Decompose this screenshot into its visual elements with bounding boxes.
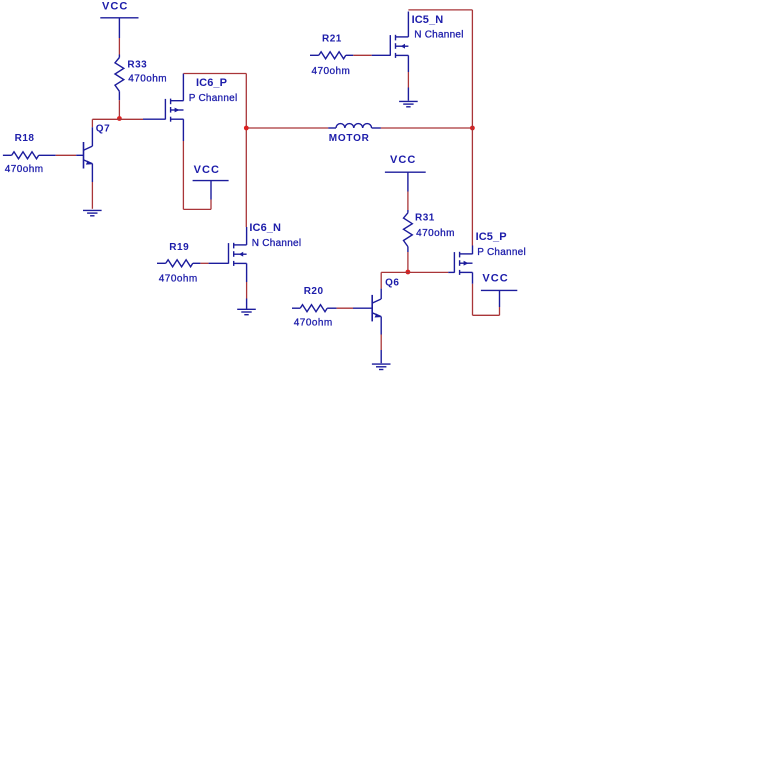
wire node A left to Q7 collector (92, 119, 119, 127)
label MOTOR (329, 133, 370, 144)
wire R19 to IC6_N gate (200, 262, 208, 264)
label R31 (415, 213, 435, 224)
pin Q6 base lead (353, 307, 372, 309)
label Q7 (96, 124, 110, 135)
svg-text:VCC: VCC (102, 1, 128, 13)
transistor Q6 (372, 289, 381, 335)
wire R33 to node A (118, 100, 120, 117)
svg-text:Q6: Q6 (385, 278, 399, 289)
value P Channel (IC6_P) (189, 93, 238, 104)
svg-text:R19: R19 (169, 242, 189, 253)
label IC5_N (412, 14, 444, 26)
node D junction dot (406, 270, 411, 275)
svg-text:470ohm: 470ohm (416, 228, 455, 239)
svg-text:IC6_P: IC6_P (196, 77, 227, 89)
power symbol VCC (top left) (100, 1, 138, 39)
svg-text:Q7: Q7 (96, 124, 110, 135)
svg-text:R31: R31 (415, 213, 435, 224)
wire Q7 emitter to ground (91, 182, 93, 209)
wire IC5_N source to ground (407, 72, 409, 88)
label Q6 (385, 278, 399, 289)
wire R20 to Q6 base (337, 307, 353, 309)
svg-text:R20: R20 (304, 286, 324, 297)
pin IC5_N gate lead (372, 54, 391, 56)
svg-text:VCC: VCC (482, 273, 508, 285)
ground (Q6 emitter) (372, 364, 391, 369)
node A junction dot (117, 116, 122, 121)
pin Q6 emitter lower lead (380, 350, 382, 363)
svg-text:IC6_N: IC6_N (249, 222, 281, 234)
mosfet IC6_N (229, 243, 247, 266)
wire node D right to IC5_P gate (408, 271, 448, 273)
pin IC5_N source lead (407, 55, 409, 72)
wire VCC to R33 (118, 38, 120, 55)
label R20 (304, 286, 324, 297)
wire motor right (381, 127, 471, 129)
power symbol VCC (right, IC5_P source) (481, 273, 517, 308)
pin IC6_N gate lead (209, 262, 229, 264)
svg-text:P Channel: P Channel (477, 247, 526, 258)
pin IC6_N source lead (246, 263, 248, 282)
wire IC5_P source to VCC (473, 284, 500, 316)
inductor MOTOR (328, 124, 381, 128)
label R21 (322, 33, 342, 44)
svg-text:MOTOR: MOTOR (329, 133, 370, 144)
mosfet IC6_P (165, 99, 183, 122)
resistor R19 (157, 260, 200, 267)
pin IC5_N drain lead (407, 12, 409, 37)
ground (Q7 emitter) (83, 210, 102, 215)
wire R21 to IC5_N gate (353, 54, 371, 56)
svg-text:N Channel: N Channel (252, 238, 302, 249)
mosfet IC5_P (454, 252, 472, 275)
wire IC6_P drain to motor branch (183, 74, 246, 228)
pin IC6_P gate lead (143, 118, 165, 120)
power symbol VCC (below IC6_P) (193, 164, 229, 199)
label R18 (15, 133, 35, 144)
value P Channel (IC5_P) (477, 247, 526, 258)
value 470ohm (R33) (128, 74, 167, 85)
wire motor left (248, 127, 328, 129)
svg-text:VCC: VCC (390, 154, 416, 166)
wire R31 to node D (407, 252, 409, 270)
label IC5_P (476, 231, 507, 243)
value 470ohm (R21) (312, 66, 351, 77)
svg-text:P Channel: P Channel (189, 93, 238, 104)
wire IC5_N drain to motor branch (408, 10, 472, 246)
resistor R33 (115, 55, 124, 101)
svg-text:IC5_N: IC5_N (412, 14, 444, 26)
pin IC6_P drain lead (182, 74, 184, 101)
svg-text:470ohm: 470ohm (159, 274, 198, 285)
wire VCC to R31 (407, 192, 409, 211)
value N Channel (IC6_N) (252, 238, 302, 249)
svg-text:N Channel: N Channel (414, 30, 464, 41)
transistor Q7 (84, 127, 93, 182)
resistor R18 (3, 152, 56, 159)
pin IC6_N drain lead (246, 227, 248, 245)
node C junction dot (right motor node) (470, 126, 475, 131)
mosfet IC5_N (390, 35, 408, 58)
pin IC5_N source lower lead (407, 88, 409, 101)
pin IC5_P drain lead (472, 246, 474, 255)
label R33 (127, 60, 147, 71)
resistor R31 (404, 210, 413, 252)
pin IC5_P gate lead (448, 271, 454, 273)
wire IC6_P source to VCC (183, 141, 211, 209)
value 470ohm (R19) (159, 274, 198, 285)
value 470ohm (R20) (294, 318, 333, 329)
svg-text:470ohm: 470ohm (128, 74, 167, 85)
value 470ohm (R18) (5, 164, 44, 175)
ground (IC5_N source) (399, 101, 418, 106)
svg-text:R18: R18 (15, 133, 35, 144)
node B junction dot (left motor node) (244, 126, 249, 131)
pin Q7 base lead (76, 154, 83, 156)
resistor R20 (292, 305, 337, 312)
power symbol VCC (above R31) (385, 154, 426, 192)
pin IC6_N source lower lead (246, 299, 248, 309)
ground (IC6_N source) (237, 309, 256, 314)
wire node D left to Q6 collector (381, 272, 408, 288)
svg-text:R33: R33 (127, 60, 147, 71)
svg-text:R21: R21 (322, 33, 342, 44)
svg-text:VCC: VCC (194, 164, 220, 176)
svg-text:470ohm: 470ohm (312, 66, 351, 77)
wire IC6_N source to ground (246, 282, 248, 299)
label IC6_N (249, 222, 281, 234)
wire Q6 emitter to ground (380, 335, 382, 351)
wire R18 to Q7 base (56, 154, 76, 156)
pin IC5_P source lead (472, 272, 474, 283)
value 470ohm (R31) (416, 228, 455, 239)
resistor R21 (310, 52, 353, 59)
pin IC6_P source lead (182, 119, 184, 141)
label IC6_P (196, 77, 227, 89)
wire node A right to IC6_P gate (119, 118, 143, 120)
svg-text:IC5_P: IC5_P (476, 231, 507, 243)
value N Channel (IC5_N) (414, 30, 464, 41)
svg-text:470ohm: 470ohm (294, 318, 333, 329)
label R19 (169, 242, 189, 253)
svg-text:470ohm: 470ohm (5, 164, 44, 175)
